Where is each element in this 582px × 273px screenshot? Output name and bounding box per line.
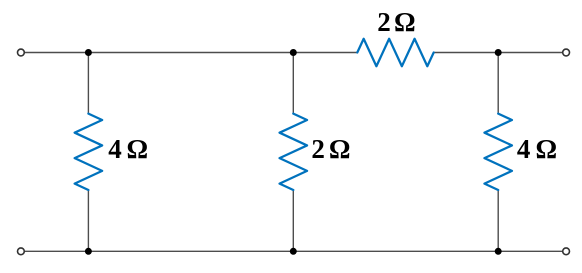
wire top rail left [25, 52, 358, 54]
label 2Ω middle [311, 134, 350, 164]
svg-text:4: 4 [108, 134, 122, 164]
node junction bottom-left [85, 248, 92, 255]
terminal bottom-left [18, 248, 25, 255]
terminal top-right [563, 49, 570, 56]
svg-text:2: 2 [311, 134, 325, 164]
resistor R2 2Ω middle [280, 114, 308, 190]
wire bottom rail [25, 250, 563, 252]
node junction bottom-middle [290, 248, 297, 255]
svg-text:Ω: Ω [536, 134, 558, 164]
label 4Ω right [517, 134, 557, 164]
node junction top-left [85, 49, 92, 56]
terminal top-left [18, 49, 25, 56]
resistor R1 4Ω left [75, 114, 103, 190]
terminal bottom-right [563, 248, 570, 255]
resistor R3 2Ω top [357, 39, 433, 67]
wire vertical left branch [87, 53, 89, 252]
label 2Ω top [377, 7, 415, 37]
wire vertical middle branch [292, 53, 294, 252]
wire vertical right branch [497, 53, 499, 252]
wire top rail right [434, 52, 563, 54]
svg-text:2: 2 [377, 7, 391, 37]
svg-text:Ω: Ω [329, 134, 351, 164]
node junction bottom-right [495, 248, 502, 255]
label 4Ω left [108, 134, 148, 164]
svg-text:4: 4 [517, 134, 531, 164]
svg-text:Ω: Ω [394, 7, 416, 37]
svg-text:Ω: Ω [127, 134, 149, 164]
node junction top-middle [290, 49, 297, 56]
resistor R4 4Ω right [484, 114, 512, 190]
node junction top-right [495, 49, 502, 56]
